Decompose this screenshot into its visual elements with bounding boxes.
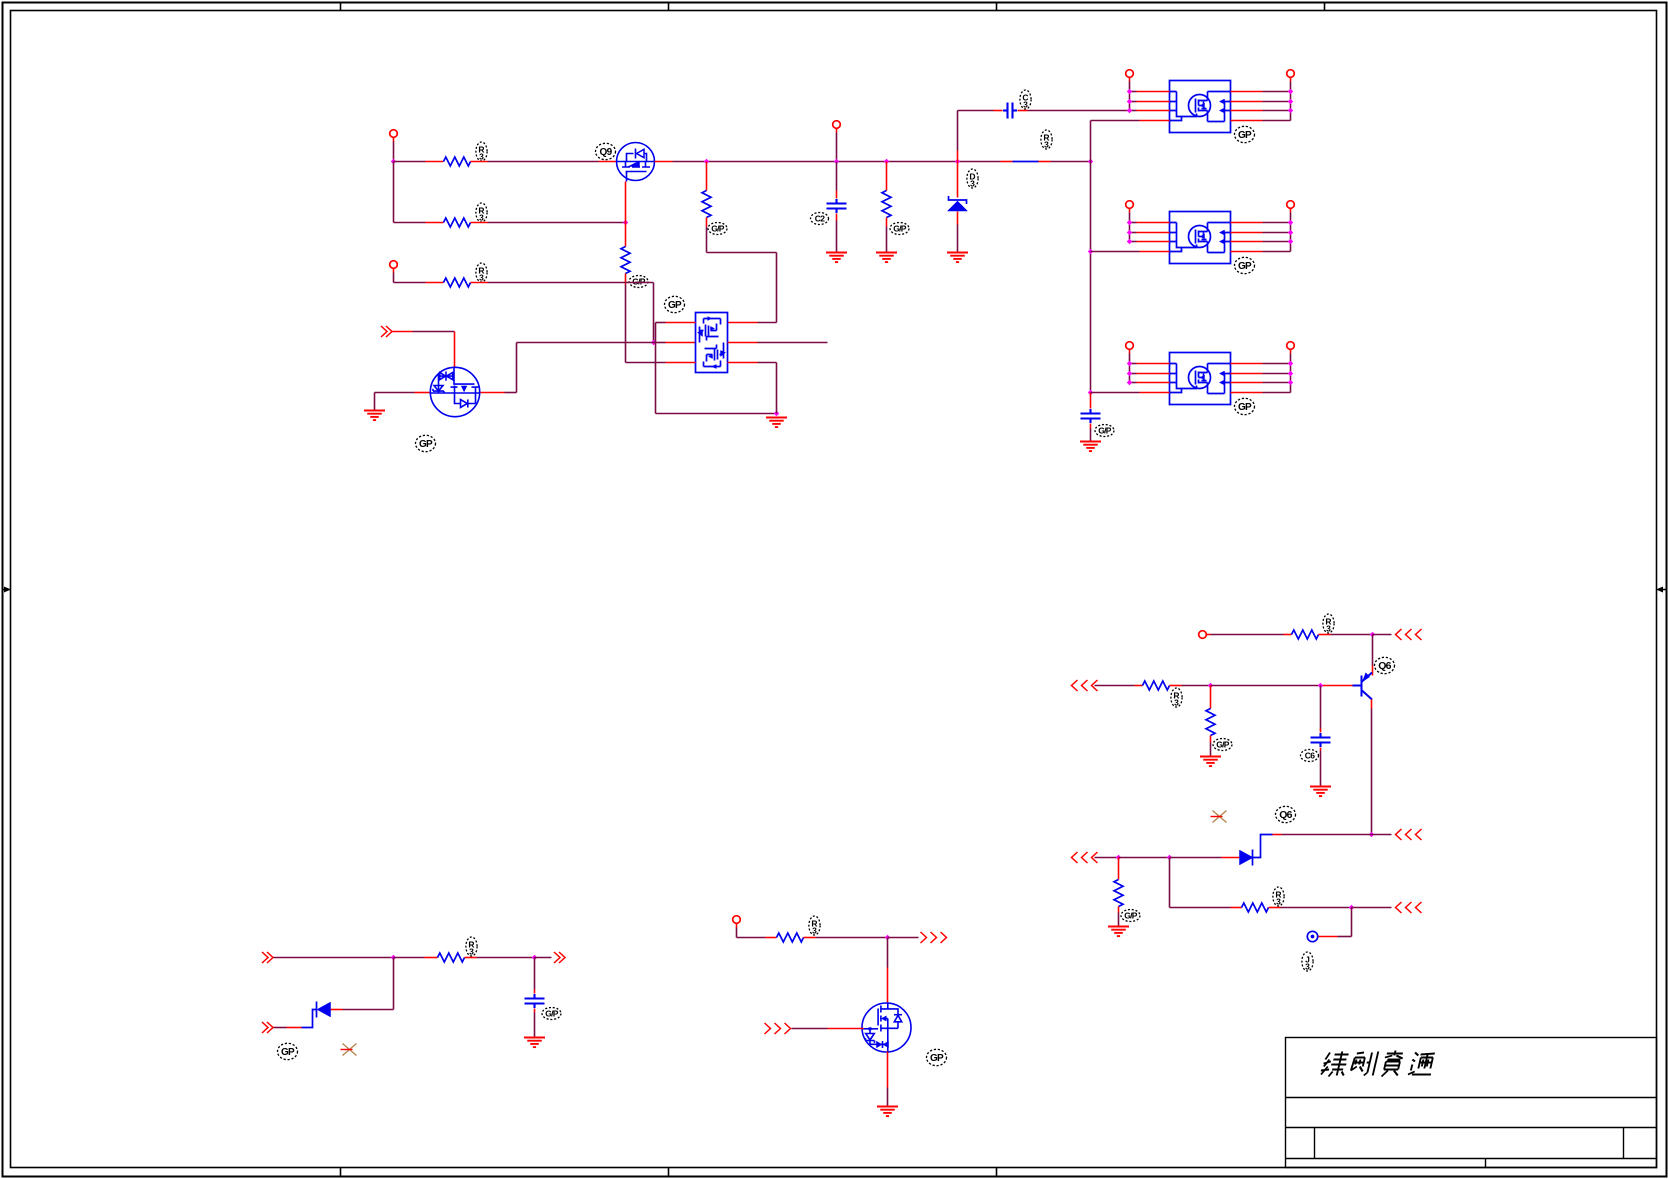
no-connect mark — [341, 1044, 357, 1056]
wire red stub — [1371, 700, 1373, 709]
svg-text:G/P: G/P — [1216, 740, 1230, 750]
wire — [1282, 834, 1372, 836]
wire corner down — [516, 343, 518, 393]
wire pin red — [1231, 222, 1263, 224]
wire — [1051, 161, 1091, 163]
junction pin — [1127, 89, 1132, 94]
label R2 — [476, 203, 487, 222]
wire — [1263, 241, 1291, 243]
wire port column — [1129, 82, 1131, 111]
transistor Q5 (MOSFET with protection diodes) — [430, 367, 479, 416]
svg-text:3: 3 — [1326, 624, 1331, 634]
junction pin — [1127, 108, 1132, 113]
wire pin4 red — [1140, 251, 1170, 253]
svg-text:GP: GP — [1238, 402, 1252, 413]
wire pin red — [1231, 382, 1263, 384]
wire down — [655, 323, 657, 414]
wire — [488, 282, 654, 284]
U3 pin arrow — [1220, 108, 1225, 113]
wire — [836, 162, 838, 191]
svg-text:C6: C6 — [1305, 751, 1315, 761]
wire — [1263, 392, 1291, 394]
wire — [1338, 936, 1352, 938]
Q7 esd diode b — [883, 1041, 889, 1048]
wire U2 pin4 red — [728, 362, 758, 364]
wire — [1095, 857, 1119, 859]
wire red stub — [804, 937, 816, 939]
wire red stub — [465, 957, 477, 959]
wire red stub — [534, 990, 536, 994]
wire — [887, 1088, 889, 1106]
wire port stub red — [1129, 209, 1131, 213]
ground — [876, 253, 897, 263]
U4 arrow — [1201, 234, 1205, 239]
wire — [1263, 373, 1291, 375]
left border mid arrow — [3, 589, 9, 591]
wire — [1119, 857, 1170, 859]
svg-text:GP: GP — [668, 300, 682, 311]
wire red stub — [1372, 666, 1374, 676]
wire — [1210, 743, 1212, 756]
junction pin — [1127, 99, 1132, 104]
wire — [394, 282, 426, 284]
wire source — [887, 1052, 889, 1088]
wire red stub — [1135, 685, 1143, 687]
svg-text:3: 3 — [1044, 140, 1049, 150]
wire — [1263, 120, 1291, 122]
label U4 — [1235, 257, 1255, 273]
label R9 — [1323, 614, 1334, 633]
wire port stub red — [1129, 78, 1131, 82]
capacitor C6 — [1311, 733, 1331, 747]
transistor Q7 (N-MOSFET) — [862, 1003, 911, 1052]
label U3 — [1235, 126, 1255, 142]
wire row4 to bus — [1091, 120, 1140, 122]
wire red stub — [836, 214, 838, 221]
wire pin red — [1137, 101, 1170, 103]
svg-text:GP: GP — [1238, 130, 1252, 141]
label Q5 — [416, 435, 436, 451]
wire — [477, 957, 535, 959]
zener diode D1 — [949, 196, 967, 204]
wire — [776, 363, 778, 414]
wire — [1130, 382, 1137, 384]
svg-text:3: 3 — [469, 947, 474, 957]
wire port column — [1290, 213, 1292, 252]
wire — [1170, 907, 1231, 909]
wire port column — [1129, 213, 1131, 242]
port U4 left — [1126, 201, 1134, 209]
ground — [1108, 927, 1129, 937]
junction — [391, 955, 396, 960]
wire corner down — [653, 283, 655, 343]
Q6 emitter arrow — [1363, 673, 1370, 682]
ground — [1080, 442, 1101, 452]
wire port column — [1129, 354, 1131, 383]
wire red stub — [994, 110, 1003, 112]
junction — [1167, 855, 1172, 860]
wire red stub — [426, 161, 444, 163]
wire — [957, 225, 959, 252]
label Q7 — [927, 1049, 947, 1065]
junction — [1369, 832, 1374, 837]
wire red stub — [625, 274, 627, 285]
wire — [1210, 686, 1212, 709]
resistor R11 — [1206, 709, 1215, 736]
U5 pin arrow — [1220, 380, 1225, 385]
label R1 — [476, 142, 487, 161]
junction — [532, 955, 537, 960]
resistor R12 — [1114, 880, 1123, 907]
wire red stub — [655, 161, 673, 163]
junction — [1349, 905, 1354, 910]
wire red stub — [1284, 634, 1292, 636]
label G/P — [890, 223, 909, 235]
wire U2 pin3 red — [666, 362, 696, 364]
Q7 arrow — [881, 1016, 886, 1021]
junction — [1088, 159, 1093, 164]
junction pin — [1288, 361, 1293, 366]
wire — [517, 342, 654, 344]
wire — [413, 331, 455, 333]
capacitor C1 — [827, 199, 847, 213]
svg-text:3: 3 — [1276, 897, 1281, 907]
U2 arrow — [711, 327, 715, 331]
wire — [1130, 91, 1137, 93]
label J1 — [1302, 952, 1313, 971]
U4 pin arrow — [1220, 230, 1225, 235]
wire red stub — [471, 222, 488, 224]
label G/P — [1121, 910, 1140, 922]
wire red stub — [1210, 736, 1212, 743]
wire — [1372, 834, 1392, 836]
wire — [488, 161, 599, 163]
wire red stub — [1273, 834, 1282, 836]
wire pin red — [1137, 382, 1170, 384]
wire pin red — [1231, 241, 1263, 243]
junction pin — [1127, 239, 1132, 244]
wire red stub — [471, 161, 488, 163]
resistor R4 — [621, 247, 630, 274]
wire pin red — [1137, 110, 1170, 112]
wire — [1130, 101, 1137, 103]
wire U2 pin1 red — [666, 322, 696, 324]
port U3 right — [1287, 70, 1295, 78]
wire red stub — [828, 1028, 864, 1030]
port P2 — [390, 261, 398, 269]
bottom border zone ticks — [340, 1168, 342, 1177]
wire — [1320, 686, 1322, 731]
wire — [957, 162, 959, 198]
wire red stub — [480, 392, 505, 394]
op-amp U5 body — [1170, 353, 1231, 405]
resistor R3 — [444, 278, 471, 287]
right border mid arrow — [1661, 589, 1667, 591]
wire — [758, 362, 777, 364]
ground — [364, 411, 385, 421]
wire — [1320, 751, 1322, 786]
U2 zener mark2 — [721, 351, 726, 357]
wire red stub — [415, 392, 430, 394]
wire — [534, 1013, 536, 1037]
op-amp U3 body — [1170, 81, 1231, 133]
wire main net — [673, 161, 1001, 163]
top border zone ticks — [340, 3, 342, 11]
wire — [1331, 634, 1373, 636]
ground — [877, 1107, 898, 1117]
wire red stub — [1321, 685, 1353, 687]
U5 pin arrow — [1220, 371, 1225, 376]
junction pin — [1127, 220, 1132, 225]
resistor R6 — [882, 191, 891, 218]
wire — [836, 221, 838, 252]
wire red stub — [957, 212, 959, 225]
svg-text:Q9: Q9 — [600, 147, 613, 158]
wire down — [534, 958, 536, 990]
connector >> out — [554, 952, 565, 963]
wire port stub red — [1129, 350, 1131, 354]
wire red stub — [886, 218, 888, 227]
wire pin red — [1231, 101, 1263, 103]
wire red stub — [1039, 161, 1051, 163]
connector >> to gate — [381, 326, 392, 337]
junction — [884, 159, 889, 164]
wire — [886, 227, 888, 252]
resistor R5 — [702, 191, 711, 218]
label D1 — [967, 169, 978, 188]
port U5 left — [1126, 342, 1134, 350]
wire down — [393, 958, 395, 1010]
wire down — [1351, 908, 1353, 937]
Q1 body diode — [637, 149, 645, 157]
svg-text:GP: GP — [281, 1047, 295, 1058]
wire U2 pin5 red — [728, 342, 758, 344]
wire pin red — [1137, 363, 1170, 365]
port P4 — [1199, 631, 1207, 639]
connector <<< out3 — [1396, 902, 1422, 913]
wire — [886, 162, 888, 191]
svg-text:3: 3 — [970, 179, 975, 189]
capacitor C5 — [525, 994, 545, 1008]
port P1 — [390, 130, 398, 138]
wire down — [1169, 858, 1171, 908]
wire port stub red — [1290, 78, 1292, 82]
svg-text:3: 3 — [1305, 962, 1310, 972]
wire port stub red — [393, 138, 395, 142]
diode D3 triangle — [1240, 850, 1254, 865]
company name text — [1319, 1052, 1349, 1077]
ground — [1200, 757, 1221, 767]
wire D2 cathode — [302, 1010, 317, 1028]
wire port column — [1290, 82, 1292, 121]
wire — [375, 392, 415, 394]
svg-text:Q6: Q6 — [1279, 809, 1292, 821]
svg-text:GP: GP — [419, 439, 433, 450]
wire red stub — [957, 151, 959, 162]
wire port column — [1290, 354, 1292, 393]
wire — [654, 342, 666, 344]
wire — [1130, 363, 1137, 365]
junction pin — [1288, 99, 1293, 104]
wire red stub — [426, 282, 444, 284]
ground — [766, 418, 787, 428]
wire — [1130, 373, 1137, 375]
wire red stub — [1118, 907, 1120, 913]
wire red stub — [426, 222, 444, 224]
port U3 left — [1126, 70, 1134, 78]
svg-text:G/P: G/P — [711, 224, 725, 234]
wire — [1211, 685, 1321, 687]
label R13 — [1273, 887, 1284, 906]
wire — [1118, 913, 1120, 926]
wire port stub red — [736, 924, 738, 928]
wire — [1095, 685, 1135, 687]
wire pin red — [1137, 91, 1170, 93]
wire row4 to bus — [1091, 251, 1140, 253]
junction — [885, 935, 890, 940]
wire port stub red — [1290, 209, 1292, 213]
junction — [1116, 855, 1121, 860]
wire red stub — [1319, 634, 1331, 636]
wire — [1263, 251, 1291, 253]
ground — [524, 1038, 545, 1048]
wire — [776, 253, 778, 323]
transistor Q1 (P-MOSFET) — [617, 143, 655, 182]
wire — [1263, 222, 1291, 224]
wire — [274, 1027, 287, 1029]
wire blue segment W1 — [1013, 161, 1039, 163]
wire — [1028, 110, 1130, 112]
label W1 — [1041, 130, 1052, 149]
wire pin red — [1137, 222, 1170, 224]
junction — [651, 340, 656, 345]
wire — [374, 393, 376, 410]
resistor R9 — [1292, 630, 1319, 639]
wire — [505, 392, 517, 394]
capacitor C3 — [1003, 103, 1017, 119]
junction — [1208, 683, 1213, 688]
op-amp U4 body — [1170, 212, 1231, 264]
wire — [343, 1009, 394, 1011]
wire collector — [1371, 709, 1373, 835]
wire red stub — [534, 1009, 536, 1013]
label G/P — [629, 276, 648, 288]
wire — [707, 252, 777, 254]
zener triangle — [948, 201, 968, 211]
U3 pin arrow — [1220, 99, 1225, 104]
wire — [394, 161, 426, 163]
junction pin — [1127, 230, 1132, 235]
label G/P — [708, 223, 727, 235]
ground — [1310, 787, 1331, 797]
wire down — [887, 938, 889, 968]
wire — [1130, 110, 1137, 112]
connector >>> gate — [765, 1023, 791, 1034]
port U5 right — [1287, 342, 1295, 350]
wire pin4 red — [1140, 392, 1170, 394]
wire — [625, 285, 627, 363]
wire red stub — [287, 1027, 302, 1029]
wire — [1211, 634, 1284, 636]
wire red stub — [1222, 857, 1240, 859]
junction pin — [1288, 371, 1293, 376]
transistor Q6 (PNP) — [1353, 673, 1373, 700]
junction pin — [1288, 108, 1293, 113]
wire — [958, 110, 994, 112]
svg-text:G/P: G/P — [545, 1009, 559, 1019]
wire — [274, 957, 394, 959]
label Q6 — [1375, 657, 1395, 673]
wire — [1263, 232, 1291, 234]
svg-text:G/P: G/P — [632, 277, 646, 287]
wire port stub — [393, 273, 395, 283]
wire red stub — [1319, 936, 1338, 938]
wire red stub — [471, 282, 488, 284]
junction — [1318, 683, 1323, 688]
junction pin — [1288, 89, 1293, 94]
diode D2 triangle — [317, 1002, 331, 1017]
svg-text:3: 3 — [1174, 698, 1179, 708]
label D2 — [278, 1043, 298, 1059]
junction pin — [1288, 239, 1293, 244]
connector >>> out — [921, 932, 947, 943]
junction — [834, 159, 839, 164]
wire red stub — [1320, 729, 1322, 733]
svg-text:C2: C2 — [815, 214, 825, 224]
no-connect mark 2 — [1211, 811, 1227, 823]
wire — [1170, 857, 1222, 859]
wire — [792, 1028, 828, 1030]
wire — [816, 937, 888, 939]
connector >> in — [262, 952, 273, 963]
junction node A — [391, 159, 396, 164]
svg-text:3: 3 — [479, 152, 484, 162]
title block frame — [1286, 1038, 1657, 1168]
wire — [1263, 382, 1291, 384]
label C1 — [811, 213, 829, 225]
wire — [706, 227, 708, 253]
junction — [704, 159, 709, 164]
wire bottom — [656, 413, 777, 415]
U2 diode mark2 — [712, 365, 717, 369]
op-amp U2 body — [696, 313, 728, 373]
U5 arrow — [1201, 375, 1205, 380]
wire up branch — [957, 111, 959, 151]
junction pin — [1127, 380, 1132, 385]
wire — [758, 322, 777, 324]
wire pin red — [1137, 373, 1170, 375]
label U5 — [1235, 398, 1255, 414]
wire — [1263, 363, 1291, 365]
label C4 — [1095, 425, 1114, 437]
junction — [1370, 632, 1375, 637]
svg-text:3: 3 — [479, 213, 484, 223]
resistor R8 — [777, 933, 804, 942]
label D3 — [1276, 806, 1296, 822]
wire red stub — [331, 1009, 343, 1011]
wire red stub — [1170, 685, 1182, 687]
wire — [535, 957, 552, 959]
label R10 — [1171, 688, 1182, 707]
wire — [488, 222, 626, 224]
svg-text:3: 3 — [1023, 100, 1028, 110]
wire red stub — [1320, 748, 1322, 751]
svg-text:G/P: G/P — [1098, 426, 1112, 436]
wire red stub — [425, 957, 438, 959]
label G/P — [1213, 739, 1232, 751]
wire port stub red — [836, 129, 838, 133]
connector J1 (circled dot) — [1307, 931, 1317, 941]
